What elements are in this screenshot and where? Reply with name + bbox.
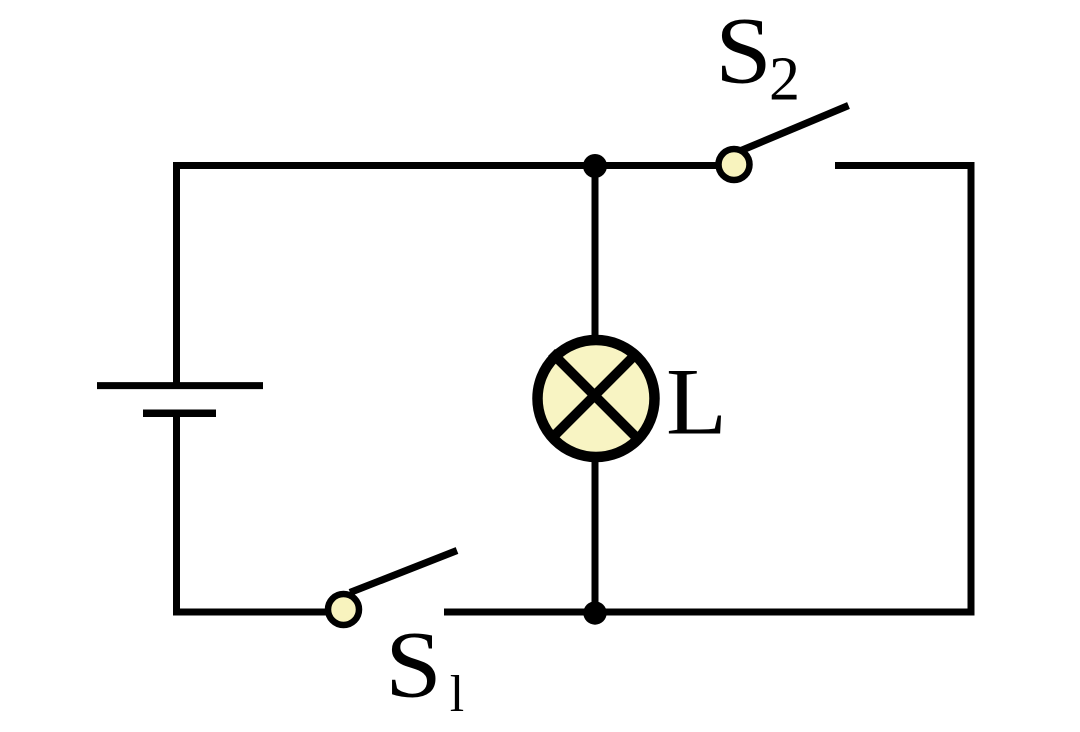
switch S1 pivot circle bbox=[328, 594, 359, 625]
switch S2 pivot circle bbox=[719, 149, 750, 180]
node: bottom junction dot bbox=[583, 601, 606, 624]
battery B1 long plate (+) bbox=[97, 382, 263, 389]
wire: vertical from lamp down to bottom junction bbox=[592, 456, 599, 613]
lamp L cross stroke 1 bbox=[552, 353, 638, 439]
svg-text:S: S bbox=[715, 0, 772, 104]
svg-text:2: 2 bbox=[769, 46, 800, 114]
node: top junction dot bbox=[583, 154, 607, 178]
lamp L cross stroke 2 bbox=[552, 353, 638, 439]
wire: vertical from top junction down to lamp bbox=[592, 166, 599, 343]
wire: from battery minus plate down left side and bottom rail to switch S1 bbox=[177, 413, 328, 612]
svg-text:S: S bbox=[385, 612, 442, 718]
wire: top rail from battery top, left corner, down left side to battery plus plate bbox=[177, 166, 717, 386]
battery B1 short plate (-) bbox=[143, 410, 216, 418]
wire: bottom rail from S1 gap through bottom junction, up right side to S2 gap bbox=[444, 166, 971, 613]
switch S1 lever arm bbox=[350, 551, 457, 593]
lamp L circle bbox=[538, 340, 655, 457]
switch S2 lever arm bbox=[740, 106, 849, 152]
svg-text:l: l bbox=[450, 666, 464, 723]
svg-text:L: L bbox=[666, 349, 727, 455]
